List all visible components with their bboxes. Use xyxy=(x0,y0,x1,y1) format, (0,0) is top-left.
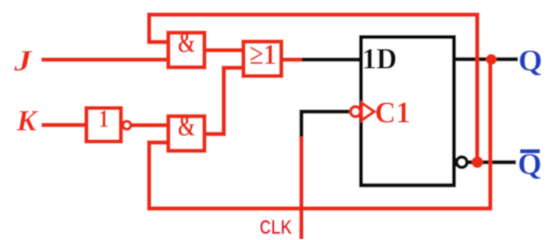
wire: AND1 output to OR upper input xyxy=(204,48,243,52)
U1 pin label C1 xyxy=(375,95,411,130)
svg-text:J: J xyxy=(13,43,33,76)
U1 output inversion bubble xyxy=(457,157,467,167)
svg-text:Q: Q xyxy=(518,43,542,78)
U1 clock polarity bubble xyxy=(351,107,361,117)
wire: Q-bar output from inversion bubble to label Q-bar xyxy=(467,160,516,164)
svg-text:K: K xyxy=(16,105,39,138)
label Q-bar overbar xyxy=(520,149,540,153)
wire: OR output red segment xyxy=(281,57,302,61)
wire: bottom feedback net from AND2 lower input down, right, up to Q node xyxy=(149,59,490,208)
junction node on Q wire xyxy=(486,54,497,65)
svg-text:C1: C1 xyxy=(375,95,411,130)
wire: Q output from flip-flop to label Q xyxy=(454,57,518,61)
svg-text:≥1: ≥1 xyxy=(250,39,277,71)
svg-text:1D: 1D xyxy=(362,43,397,76)
AND gate G1 (IEC symbol, top) xyxy=(168,33,204,68)
OR gate G3 (IEC symbol, &#8805;1) xyxy=(243,42,281,76)
wire: NOT bubble to AND2 upper input xyxy=(130,123,169,127)
wire: CLK red vertical from bottom edge up to black segment xyxy=(299,137,303,240)
svg-text:&: & xyxy=(177,111,196,142)
wire: CLK black corner segment into C1 bubble xyxy=(301,112,351,138)
wire: K input to NOT gate xyxy=(42,123,87,127)
wire: AND2 output up to OR lower input xyxy=(204,68,243,134)
svg-text:CLK: CLK xyxy=(260,215,293,239)
NOT gate G4 output bubble xyxy=(123,121,131,129)
junction node on Q-bar wire xyxy=(472,156,484,168)
wire: top feedback net from Q-bar node up, left, down to AND1 upper input xyxy=(149,15,477,163)
AND gate G2 (IEC symbol, bottom) xyxy=(168,116,204,151)
svg-text:1: 1 xyxy=(99,105,109,133)
wire: J input to AND1 lower input xyxy=(41,57,168,61)
D flip-flop U1 body xyxy=(361,37,454,185)
svg-text:&: & xyxy=(177,28,196,59)
U1 dynamic clock triangle xyxy=(362,103,375,121)
NOT gate G4 (IEC symbol, 1) xyxy=(86,108,121,142)
label J xyxy=(13,43,33,76)
label CLK xyxy=(260,215,293,239)
U1 pin label 1D xyxy=(362,43,397,76)
wire: D input black segment from node column into flip-flop xyxy=(300,58,361,62)
